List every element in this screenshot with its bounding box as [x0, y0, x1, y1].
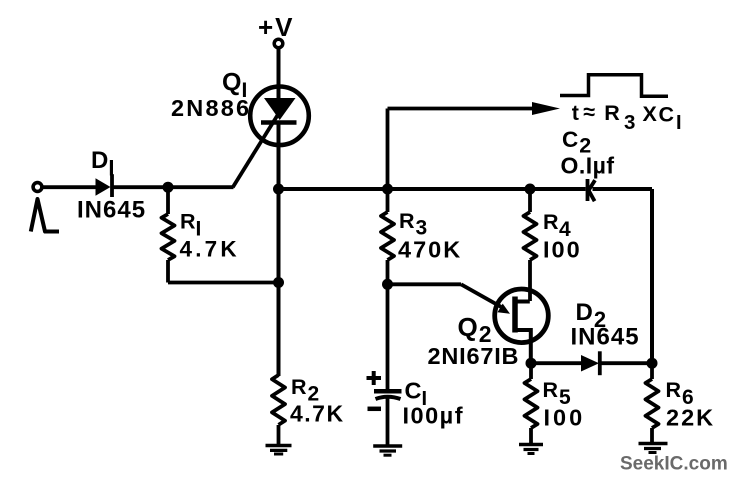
node R3/C1/emitter junction — [382, 279, 393, 290]
svg-text:22K: 22K — [666, 405, 715, 431]
resistor R2 — [272, 375, 285, 446]
transistor Q2 (UJT) — [495, 260, 549, 363]
svg-text:4.7K: 4.7K — [180, 237, 240, 262]
wire D2 to R6 node — [600, 361, 652, 365]
svg-text:+V: +V — [258, 12, 295, 42]
wire input to D1 — [42, 185, 96, 189]
ground C1 — [373, 446, 402, 455]
svg-text:SeekIC.com: SeekIC.com — [620, 454, 728, 475]
wire arrow riser — [386, 109, 390, 190]
wire Q1 cathode down through bus to R2 — [277, 123, 281, 377]
node Q2/R5/D2 junction — [526, 358, 537, 369]
svg-text:470K: 470K — [398, 237, 462, 263]
output pulse waveform — [560, 75, 668, 97]
arrowhead — [532, 102, 560, 115]
resistor R3 — [381, 189, 394, 284]
ground R6 — [639, 444, 668, 453]
node Q1 cathode / bus — [273, 184, 284, 195]
svg-text:2N886: 2N886 — [171, 95, 251, 121]
svg-text:I00µf: I00µf — [403, 403, 465, 429]
capacitor C2 — [588, 179, 596, 201]
svg-text:I00: I00 — [544, 405, 586, 431]
wire +V to Q1 anode — [277, 48, 281, 99]
capacitor C1 — [374, 391, 402, 399]
wire main bus — [279, 187, 586, 191]
ground R5 — [519, 445, 543, 454]
wire D1 to junction — [112, 185, 168, 189]
input pulse waveform — [31, 199, 59, 232]
node input junction — [163, 182, 174, 193]
+V terminal — [274, 39, 283, 48]
svg-text:2NI67IB: 2NI67IB — [428, 343, 520, 369]
wire Q1 gate diagonal — [233, 108, 282, 187]
wire junction to gate diagonal — [168, 185, 234, 189]
wire R1 bottom to R2 node — [168, 281, 279, 285]
node R1/R2 junction — [273, 277, 284, 288]
node bus/R3/arrow junction — [382, 184, 393, 195]
label minus — [368, 407, 382, 412]
wire C1 riser — [386, 284, 390, 391]
Q2 emitter arrowhead — [498, 304, 511, 314]
ground R2 — [266, 446, 292, 455]
wire right vertical — [650, 189, 654, 363]
svg-text:IN645: IN645 — [571, 324, 640, 351]
wire C1 to ground — [386, 397, 390, 446]
svg-text:O.Iµf: O.Iµf — [561, 153, 615, 179]
resistor R4 — [524, 189, 537, 260]
node bus/R4 junction — [525, 184, 536, 195]
transistor Q1 (4-layer device in circle) — [250, 87, 309, 146]
wire junction to Q2 emitter — [388, 282, 462, 286]
svg-text:4.7K: 4.7K — [290, 401, 345, 427]
resistor R1 — [162, 187, 175, 282]
resistor R5 — [525, 363, 538, 444]
label plus — [367, 371, 382, 385]
node D2/R6 junction — [647, 358, 658, 369]
resistor R6 — [646, 363, 659, 443]
wire arrow horizontal — [388, 107, 536, 111]
diode D1 — [96, 174, 113, 197]
wire bus right of C2 — [593, 187, 653, 191]
svg-text:IN645: IN645 — [77, 197, 146, 224]
input terminal — [33, 183, 42, 192]
svg-text:I00: I00 — [543, 237, 582, 263]
diode D2 — [581, 351, 600, 375]
wire junction to D2 — [531, 361, 582, 365]
